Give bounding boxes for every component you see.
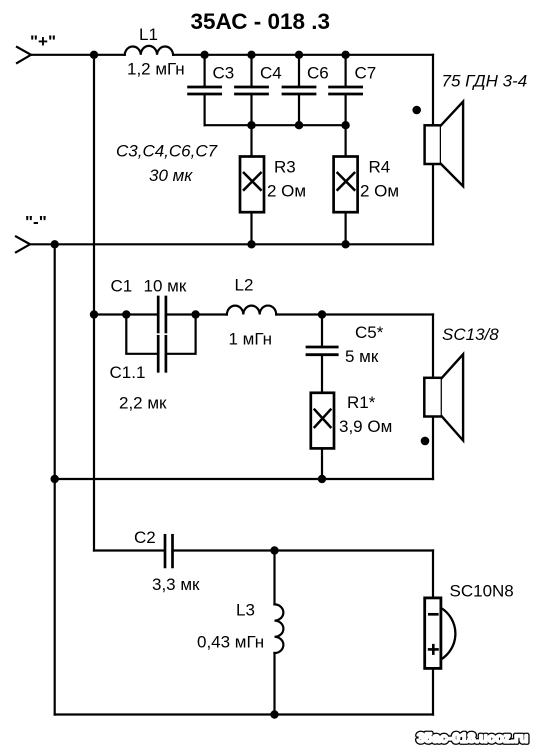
- inductor L2: [227, 306, 276, 315]
- svg-text:R3: R3: [274, 157, 296, 176]
- svg-text:C6: C6: [307, 64, 329, 83]
- svg-text:C4: C4: [260, 64, 282, 83]
- svg-text:0,43 мГн: 0,43 мГн: [197, 633, 264, 652]
- wire mid top middle: [167, 313, 227, 315]
- svg-text:C1: C1: [111, 277, 133, 296]
- resistor R4: [334, 125, 399, 244]
- node dot C1 left: [122, 310, 130, 318]
- speaker 75 ГДН 3-4: [425, 72, 528, 187]
- capacitor C7: [330, 55, 377, 125]
- wire C2 feed corner: [94, 549, 163, 551]
- wire mid top right: [276, 313, 433, 315]
- wire mid right bus: [432, 315, 434, 480]
- svg-text:L1: L1: [139, 25, 158, 44]
- wire plus vertical bus: [93, 55, 95, 551]
- terminal "-" arrow: [16, 237, 30, 253]
- svg-text:35АС - 018 .3: 35АС - 018 .3: [191, 9, 331, 34]
- watermark 35ac-018.ucoz.ru: [417, 731, 528, 746]
- capacitor C4: [236, 55, 282, 125]
- wire top horizontal right: [173, 54, 433, 56]
- svg-text:3,3 мк: 3,3 мк: [152, 575, 200, 594]
- svg-text:L3: L3: [236, 601, 255, 620]
- wire top horizontal left: [31, 54, 125, 56]
- svg-text:1 мГн: 1 мГн: [229, 330, 273, 349]
- wire bottom top right: [174, 549, 433, 551]
- node dot L3 bottom: [270, 710, 278, 718]
- capacitor C1: [111, 277, 187, 333]
- node dot mid bottom left: [51, 475, 59, 483]
- svg-text:3,9 Ом: 3,9 Ом: [339, 417, 392, 436]
- svg-text:2 Ом: 2 Ом: [360, 182, 399, 201]
- svg-text:C1.1: C1.1: [110, 363, 146, 382]
- svg-text:SC13/8: SC13/8: [442, 325, 499, 344]
- svg-text:10 мк: 10 мк: [144, 277, 187, 296]
- speaker SC10N8: [425, 582, 514, 669]
- svg-text:C5*: C5*: [355, 323, 384, 342]
- inductor L1: [125, 46, 173, 55]
- svg-text:1,2 мГн: 1,2 мГн: [127, 60, 185, 79]
- svg-text:"-": "-": [25, 213, 47, 232]
- svg-text:C3,C4,C6,C7: C3,C4,C6,C7: [116, 142, 218, 161]
- svg-text:L2: L2: [235, 276, 254, 295]
- svg-text:C3: C3: [213, 64, 235, 83]
- wire capacitor bottom bus: [205, 124, 346, 126]
- node dot minus left: [51, 240, 59, 248]
- svg-text:R4: R4: [369, 157, 391, 176]
- inductor L3: [197, 551, 283, 715]
- polarity dot 75 ГДН: [412, 106, 421, 115]
- node dot mid input: [90, 310, 98, 318]
- svg-text:2 Ом: 2 Ом: [267, 182, 306, 201]
- capacitor C1.1 branch: [110, 315, 196, 413]
- node dot C3 top: [200, 51, 208, 59]
- node dot C5 top: [318, 310, 326, 318]
- wire mid bottom: [55, 478, 433, 480]
- node dot bus C6: [295, 121, 303, 129]
- resistor R1: [311, 393, 392, 479]
- svg-text:R1*: R1*: [347, 393, 376, 412]
- svg-text:C2: C2: [134, 528, 156, 547]
- speaker SC13/8: [424, 325, 499, 441]
- svg-text:"+": "+": [30, 32, 56, 51]
- svg-text:30 мк: 30 мк: [149, 166, 193, 185]
- resistor R3: [240, 125, 306, 244]
- capacitor C5: [307, 315, 384, 393]
- node dot input junction: [90, 51, 98, 59]
- wire bottom bus: [55, 713, 433, 715]
- node dot bus C4/R3: [247, 121, 255, 129]
- terminal "+" arrow: [17, 47, 31, 63]
- node dot C6 top: [295, 51, 303, 59]
- node dot L3 top: [270, 546, 278, 554]
- node dot bus C7/R4: [341, 121, 349, 129]
- node dot R4 bottom: [341, 240, 349, 248]
- node dot R1 bottom: [318, 475, 326, 483]
- svg-text:75 ГДН 3-4: 75 ГДН 3-4: [442, 72, 528, 91]
- capacitor C3: [189, 55, 235, 125]
- svg-text:5 мк: 5 мк: [345, 347, 379, 366]
- node dot C4 top: [247, 51, 255, 59]
- polarity dot SC13/8: [421, 437, 430, 446]
- capacitor C2: [134, 528, 200, 594]
- wire minus horizontal: [30, 243, 433, 245]
- svg-text:SC10N8: SC10N8: [450, 582, 514, 601]
- node dot R3 bottom: [247, 240, 255, 248]
- wire mid top left: [94, 313, 157, 315]
- node dot C7 top: [341, 51, 349, 59]
- wire minus vertical bus: [54, 244, 56, 714]
- wire bottom right bus: [432, 551, 434, 715]
- svg-text:C7: C7: [355, 64, 377, 83]
- capacitor C6: [283, 55, 329, 125]
- wire top right bus: [432, 55, 434, 245]
- node dot C1 right: [191, 310, 199, 318]
- svg-text:2,2 мк: 2,2 мк: [119, 394, 167, 413]
- svg-text:35ac-018.ucoz.ru: 35ac-018.ucoz.ru: [417, 731, 528, 746]
